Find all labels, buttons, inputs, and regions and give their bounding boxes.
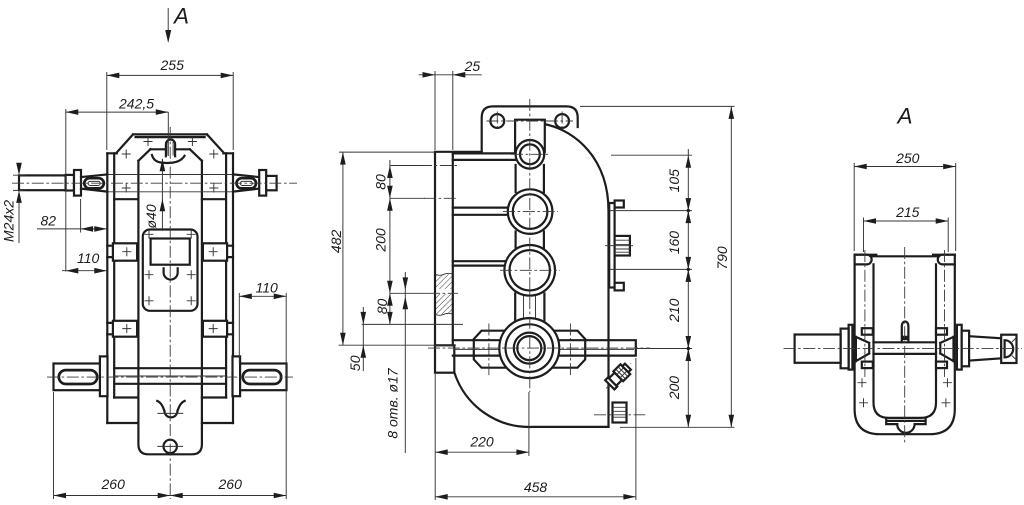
cap inner chamfer left bbox=[138, 149, 150, 161]
inspection window bbox=[151, 239, 190, 265]
housing left outer wall bbox=[106, 153, 108, 423]
web boss2-boss3 bbox=[516, 232, 544, 249]
view direction arrow A bbox=[167, 8, 169, 33]
right cap plate wide bbox=[962, 331, 969, 367]
foot pad bbox=[435, 345, 454, 372]
svg-text:25: 25 bbox=[464, 58, 481, 74]
drain plug cross ticks bbox=[157, 445, 183, 447]
housing center column right edge bbox=[201, 161, 203, 388]
bottom tab bbox=[886, 418, 925, 424]
plus marks cover bbox=[145, 230, 196, 305]
svg-text:160: 160 bbox=[666, 231, 682, 255]
8 holes leader bbox=[404, 272, 406, 453]
right foot rib bbox=[233, 356, 241, 396]
output shaft band bbox=[453, 340, 636, 355]
cap bolt tabs left column bbox=[862, 328, 873, 335]
left shaft threaded end bbox=[19, 175, 66, 190]
breather cylinder bbox=[166, 139, 175, 156]
left boss oval inner bbox=[88, 181, 100, 185]
drain plug circle bbox=[164, 440, 177, 453]
right bearing boss taper top bbox=[233, 174, 259, 177]
hatch break lines bbox=[435, 273, 453, 315]
svg-text:80: 80 bbox=[373, 174, 389, 190]
drain plug thread lines bbox=[613, 407, 627, 417]
lower side boss right welds bbox=[227, 323, 233, 334]
left cap plate wide bbox=[841, 329, 849, 369]
right shaft cylinder bbox=[969, 336, 1001, 360]
oil level whisker left bbox=[157, 401, 164, 411]
breather cylinder inner lines bbox=[168, 142, 173, 156]
dim 242,5 bbox=[66, 111, 169, 113]
centerline vertical axis bbox=[169, 127, 171, 499]
filler plug 45deg bbox=[601, 359, 636, 394]
inspection cover bbox=[143, 230, 198, 311]
funnel right bbox=[940, 337, 953, 361]
left boss oval slot bbox=[84, 178, 104, 188]
svg-text:110: 110 bbox=[77, 250, 100, 266]
left foot slot bbox=[59, 370, 97, 384]
svg-text:M24x2: M24x2 bbox=[1, 200, 17, 242]
bottom tab semicircle bbox=[897, 424, 914, 433]
front flange wall bbox=[435, 152, 482, 345]
oil plug centerline bbox=[605, 245, 633, 247]
dim 458 bbox=[435, 496, 636, 498]
svg-text:200: 200 bbox=[666, 376, 682, 401]
main vertical axis bbox=[529, 99, 531, 392]
base flange band mid line bbox=[114, 375, 226, 377]
svg-text:260: 260 bbox=[218, 476, 243, 492]
svg-text:80: 80 bbox=[374, 299, 390, 315]
left chain dim line bbox=[389, 160, 391, 324]
upper shaft bore line bottom bbox=[108, 191, 232, 193]
dim 25 bbox=[419, 74, 482, 76]
lower side boss left welds bbox=[107, 323, 113, 334]
left foot plate bbox=[54, 364, 101, 391]
dim 255 bbox=[107, 74, 233, 76]
boss4 output circles bbox=[499, 318, 559, 378]
hole centerline 3 bbox=[428, 292, 458, 294]
lower side boss right bbox=[203, 321, 227, 337]
svg-text:458: 458 bbox=[524, 479, 548, 495]
plus marks side bosses bbox=[122, 247, 217, 333]
drain plug centerline bbox=[594, 414, 645, 416]
svg-text:8 отв. ø17: 8 отв. ø17 bbox=[385, 367, 401, 439]
right shaft end cylinder bbox=[266, 176, 276, 190]
dim 215 bbox=[864, 220, 949, 222]
oil level whisker right bbox=[178, 401, 185, 411]
left shaft flange bbox=[74, 170, 81, 196]
rib band 3 bbox=[453, 261, 508, 265]
boss2 circles bbox=[508, 189, 553, 234]
flange bolt hole right bbox=[555, 114, 569, 128]
oil level symbol bbox=[164, 411, 177, 418]
right foot plate bbox=[240, 364, 287, 391]
body bottom arc bbox=[454, 372, 608, 427]
right boss oval slot bbox=[237, 178, 257, 188]
svg-text:50: 50 bbox=[347, 355, 363, 371]
output support right bbox=[547, 331, 585, 368]
svg-text:220: 220 bbox=[469, 434, 494, 450]
flange bolt hole left bbox=[490, 114, 504, 128]
upper shaft bore line top bbox=[108, 174, 232, 176]
right edge strip bbox=[609, 203, 614, 288]
flange bolt centerlines bbox=[487, 112, 574, 132]
dim 250 bbox=[854, 166, 956, 168]
dim 790 bbox=[730, 106, 732, 427]
funnel left bbox=[856, 337, 869, 361]
centerline upper shaft axis bbox=[12, 182, 297, 184]
svg-text:242,5: 242,5 bbox=[118, 96, 154, 112]
oil plug thread lines bbox=[615, 240, 630, 252]
chain arrows bbox=[387, 166, 393, 325]
housing center column left edge bbox=[137, 161, 139, 388]
plus marks bbox=[858, 378, 952, 407]
lower side boss left bbox=[113, 321, 137, 337]
housing right outer wall bbox=[232, 153, 234, 423]
left cap plate tall bbox=[849, 325, 853, 370]
hook curve under breather bbox=[152, 155, 185, 163]
bottom drain plug bbox=[613, 403, 627, 423]
upper side boss right welds bbox=[227, 246, 233, 257]
upper side boss left welds bbox=[107, 246, 113, 257]
top cap outline bbox=[107, 134, 233, 153]
svg-text:210: 210 bbox=[666, 298, 682, 323]
boss crosshair 1 bbox=[511, 153, 549, 155]
right chain ticks bbox=[610, 155, 735, 427]
right chain dim line bbox=[687, 149, 689, 427]
top cap inner top line bbox=[136, 136, 205, 138]
boss crosshair 3 bbox=[500, 269, 560, 271]
top tab left bbox=[855, 255, 872, 265]
oil level line bbox=[157, 412, 183, 414]
bracket columns bbox=[515, 120, 545, 152]
svg-text:250: 250 bbox=[895, 150, 920, 166]
svg-text:A: A bbox=[172, 4, 189, 29]
sump bottom bbox=[138, 388, 202, 454]
svg-text:200: 200 bbox=[373, 228, 389, 253]
shaft end chamfers bbox=[1012, 338, 1017, 361]
output support left bbox=[474, 331, 512, 368]
top mounting flange bbox=[482, 106, 578, 151]
rib band 2 bbox=[453, 208, 512, 215]
lower step left bbox=[107, 398, 138, 424]
inner U contour bbox=[874, 264, 937, 418]
body top-right arc bbox=[547, 125, 609, 427]
bearing counterbore step right bbox=[202, 198, 226, 200]
plus marks cap area bbox=[122, 137, 219, 193]
hole centerline 1 bbox=[420, 165, 457, 167]
left bearing boss taper bottom bbox=[81, 189, 107, 192]
cap bolt tabs right column bbox=[936, 328, 947, 335]
foot slot centerline bbox=[47, 376, 293, 378]
boss1 circles bbox=[516, 140, 545, 169]
svg-text:82: 82 bbox=[41, 213, 57, 229]
dim 110 left bbox=[62, 270, 107, 272]
bolt centerline right column bbox=[944, 250, 946, 377]
shaft end dome bbox=[1005, 340, 1014, 357]
chain ticks bbox=[362, 166, 463, 325]
left shaft bbox=[795, 335, 841, 363]
vertical centerline bbox=[904, 247, 906, 444]
wall hatch lower patch bbox=[435, 294, 453, 314]
web boss3-boss4 bbox=[515, 294, 544, 321]
strip bottom tab bbox=[615, 283, 624, 291]
center key pin bbox=[902, 321, 909, 342]
right cap plate tall bbox=[957, 325, 962, 370]
housing left inner wall bbox=[113, 153, 115, 397]
svg-text:A: A bbox=[896, 104, 913, 129]
dim M24x2 bbox=[13, 163, 25, 243]
shaft band between columns bbox=[874, 342, 937, 354]
svg-text:110: 110 bbox=[256, 279, 279, 295]
axis extension to dims bbox=[528, 392, 530, 456]
base flange band lines bbox=[114, 368, 226, 384]
svg-text:260: 260 bbox=[101, 476, 126, 492]
right shaft end block bbox=[1001, 335, 1016, 363]
svg-text:105: 105 bbox=[666, 169, 682, 193]
top tab right bbox=[938, 255, 955, 265]
bearing counterbore step left bbox=[114, 198, 138, 200]
cover handle U bbox=[164, 268, 178, 279]
right boss oval inner bbox=[240, 181, 252, 185]
support bolt dashes bbox=[489, 324, 571, 376]
boss crosshair 2 bbox=[503, 211, 558, 213]
left foot rib bbox=[100, 356, 108, 396]
outer U contour bbox=[855, 255, 955, 435]
web boss1-boss2 bbox=[516, 165, 544, 192]
dim 482 bbox=[342, 152, 344, 345]
lower step right bbox=[202, 398, 233, 424]
wall hatch upper patch bbox=[435, 274, 453, 289]
shaft band inner line bbox=[454, 348, 634, 350]
dim 82 bbox=[37, 228, 107, 230]
svg-text:215: 215 bbox=[895, 204, 920, 220]
right chain arrows bbox=[686, 155, 692, 427]
svg-text:ø40: ø40 bbox=[143, 204, 159, 228]
strip top tab bbox=[615, 201, 624, 208]
left shaft step cylinder bbox=[66, 175, 74, 191]
dim 50 bbox=[362, 307, 364, 371]
horizontal shaft centerline bbox=[784, 347, 1023, 349]
bolt centerline left column bbox=[864, 250, 866, 377]
dim 260 260 bbox=[54, 495, 287, 497]
oil level plug block bbox=[615, 236, 630, 256]
svg-text:255: 255 bbox=[160, 57, 185, 73]
cap deck line left bbox=[150, 148, 166, 150]
upper side boss left bbox=[113, 243, 137, 260]
dim 220 bbox=[435, 451, 529, 453]
cap inner chamfer right bbox=[190, 149, 202, 161]
svg-text:790: 790 bbox=[714, 246, 730, 270]
right foot slot bbox=[243, 370, 281, 384]
output shaft centerline bbox=[428, 347, 650, 349]
housing right inner wall bbox=[225, 153, 227, 397]
left bearing boss taper top bbox=[81, 174, 107, 177]
svg-text:482: 482 bbox=[328, 230, 344, 254]
hole centerline 2 bbox=[424, 197, 457, 199]
dim line phi40 vertical bbox=[167, 112, 169, 156]
upper side boss right bbox=[203, 243, 227, 260]
web boss3-boss4 inner lines bbox=[524, 295, 536, 320]
top edge bbox=[855, 255, 955, 257]
boss3 circles bbox=[504, 245, 555, 296]
right bearing boss taper bottom bbox=[233, 189, 259, 192]
cap deck line right bbox=[175, 148, 190, 150]
rib band 1 bbox=[453, 153, 520, 160]
right shaft flange bbox=[259, 170, 266, 196]
dim 110 right bbox=[239, 295, 286, 297]
